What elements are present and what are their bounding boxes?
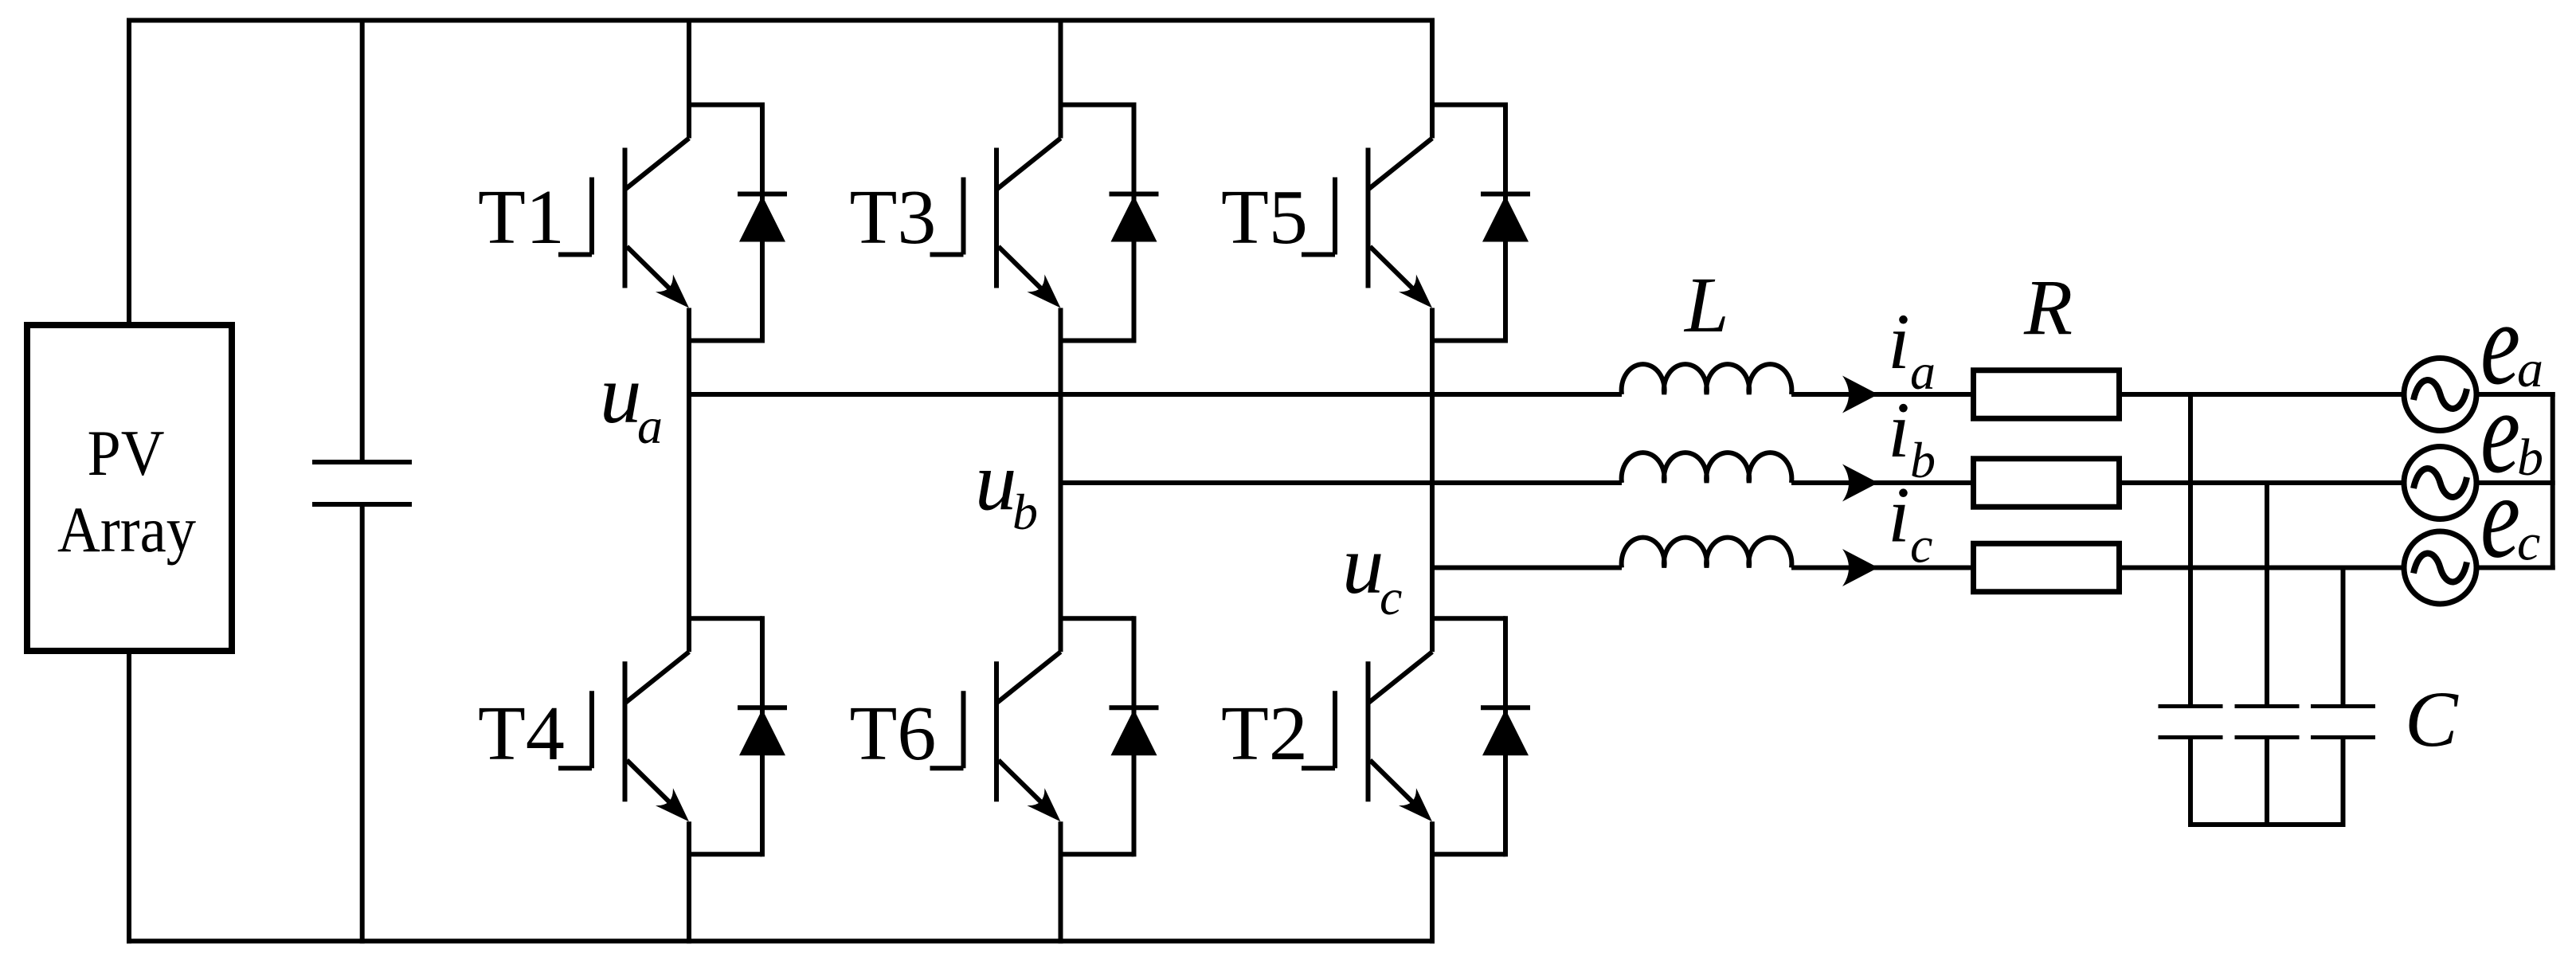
svg-text:T1: T1 [478, 174, 565, 261]
inductor L phase b [1622, 453, 1792, 483]
svg-text:T3: T3 [850, 174, 937, 261]
wire resistor Ra to source e_a [2119, 392, 2404, 397]
wire bottom DC- rail [127, 939, 1435, 943]
svg-text:u: u [1342, 518, 1384, 611]
capacitor C phase a [2159, 707, 2223, 738]
resistor R phase b [1974, 459, 2120, 507]
svg-text:e: e [2480, 451, 2520, 583]
svg-text:u: u [600, 347, 642, 441]
wire phase c leg, T5 emitter to T2 collector [1430, 308, 1435, 652]
current arrow i_a [1842, 376, 1878, 413]
wire inductor Lc to resistor Rc [1791, 566, 1973, 570]
svg-text:C: C [2405, 675, 2459, 763]
wire phase a leg, T1 emitter to T4 collector [687, 308, 691, 652]
wire left rail upper segment [127, 18, 131, 326]
diode T1 antiparallel [689, 103, 787, 343]
svg-text:c: c [1910, 517, 1932, 574]
node u_b label [975, 435, 1038, 541]
label e_c [2480, 451, 2540, 583]
wire phase b leg, T3 emitter to T6 collector [1059, 308, 1063, 652]
svg-text:T2: T2 [1221, 691, 1308, 777]
svg-text:u: u [975, 435, 1017, 528]
wire phase b leg, DC+ rail to T3 collector [1059, 18, 1063, 139]
wire phase c leg, DC+ rail to T5 collector [1430, 18, 1435, 139]
wire top DC+ rail [127, 18, 1435, 23]
AC source e_a [2404, 359, 2476, 431]
wire phase c tap to capacitor Cc [2341, 566, 2346, 705]
wire capacitor Cc to star point [2341, 739, 2346, 827]
diode T3 antiparallel [1061, 103, 1159, 343]
svg-text:T5: T5 [1221, 174, 1308, 261]
node u_a label [600, 347, 663, 454]
wire neutral bus vertical [2551, 392, 2555, 570]
wire node u_c to inductor Lc [1430, 566, 1622, 570]
wire phase a leg, T4 emitter to DC- rail [687, 821, 691, 943]
wire DC capacitor bottom lead [360, 507, 365, 943]
transistor T6 [930, 652, 1061, 821]
svg-text:a: a [637, 398, 663, 454]
wire node u_a to inductor La [687, 392, 1622, 397]
transistor T3 [930, 139, 1061, 308]
capacitor C phase c [2311, 707, 2375, 738]
transistor T1 [558, 139, 689, 308]
transistor T4 [558, 652, 689, 821]
node u_c label [1342, 518, 1402, 625]
label i_a [1888, 297, 1936, 400]
diode T4 antiparallel [689, 616, 787, 856]
label e_b [2480, 366, 2543, 498]
diode T6 antiparallel [1061, 616, 1159, 856]
svg-text:b: b [2517, 429, 2543, 487]
AC source e_c [2404, 531, 2476, 604]
wire phase b leg, T6 emitter to DC- rail [1059, 821, 1063, 943]
diode T5 antiparallel [1432, 103, 1530, 343]
wire phase a leg, DC+ rail to T1 collector [687, 18, 691, 139]
inductor L phase a [1622, 364, 1792, 394]
svg-text:a: a [2517, 340, 2543, 398]
wire inductor La to resistor Ra [1791, 392, 1973, 397]
resistor R phase a [1974, 370, 2120, 419]
transistor T2 [1302, 652, 1432, 821]
wire DC capacitor top lead [360, 18, 365, 460]
wire node u_b to inductor Lb [1059, 480, 1623, 485]
svg-text:i: i [1888, 297, 1910, 386]
wire phase a tap to capacitor Ca [2188, 392, 2193, 704]
resistor R phase c [1974, 543, 2120, 592]
svg-text:T4: T4 [478, 691, 565, 777]
capacitor Cdc DC-link [312, 462, 412, 504]
PV array source block [27, 325, 232, 651]
label i_b [1888, 386, 1936, 488]
svg-text:T6: T6 [850, 691, 937, 777]
wire source e_a to neutral bus [2476, 392, 2555, 397]
capacitor C phase b [2235, 707, 2300, 738]
wire source e_b to neutral bus [2476, 480, 2555, 485]
svg-text:c: c [2517, 514, 2540, 572]
svg-text:b: b [1012, 484, 1038, 540]
svg-text:PV: PV [88, 417, 165, 489]
wire capacitor star-point bus [2190, 822, 2343, 827]
wire source e_c to neutral bus [2476, 566, 2555, 570]
wire phase c leg, T2 emitter to DC- rail [1430, 821, 1435, 943]
diode T2 antiparallel [1432, 616, 1530, 856]
svg-text:c: c [1380, 569, 1402, 625]
inductor L phase c [1622, 538, 1792, 568]
svg-text:a: a [1910, 343, 1936, 400]
transistor T5 [1302, 139, 1432, 308]
wire resistor Rb to source e_b [2119, 480, 2404, 485]
svg-text:R: R [2023, 263, 2073, 351]
svg-text:i: i [1888, 386, 1910, 474]
wire capacitor Cb to star point [2265, 739, 2269, 827]
wire resistor Rc to source e_c [2119, 566, 2404, 570]
AC source e_b [2404, 447, 2476, 519]
current arrow i_b [1842, 464, 1878, 502]
wire capacitor Ca to star point [2188, 739, 2193, 827]
wire phase b tap to capacitor Cb [2265, 480, 2269, 704]
svg-text:L: L [1683, 261, 1729, 349]
wire inductor Lb to resistor Rb [1791, 480, 1973, 485]
svg-text:i: i [1888, 471, 1910, 559]
svg-text:Array: Array [57, 493, 196, 566]
label e_a [2480, 277, 2543, 410]
label i_c [1888, 471, 1932, 574]
current arrow i_c [1842, 549, 1878, 586]
wire left rail lower segment [127, 651, 131, 943]
svg-text:b: b [1910, 432, 1936, 488]
